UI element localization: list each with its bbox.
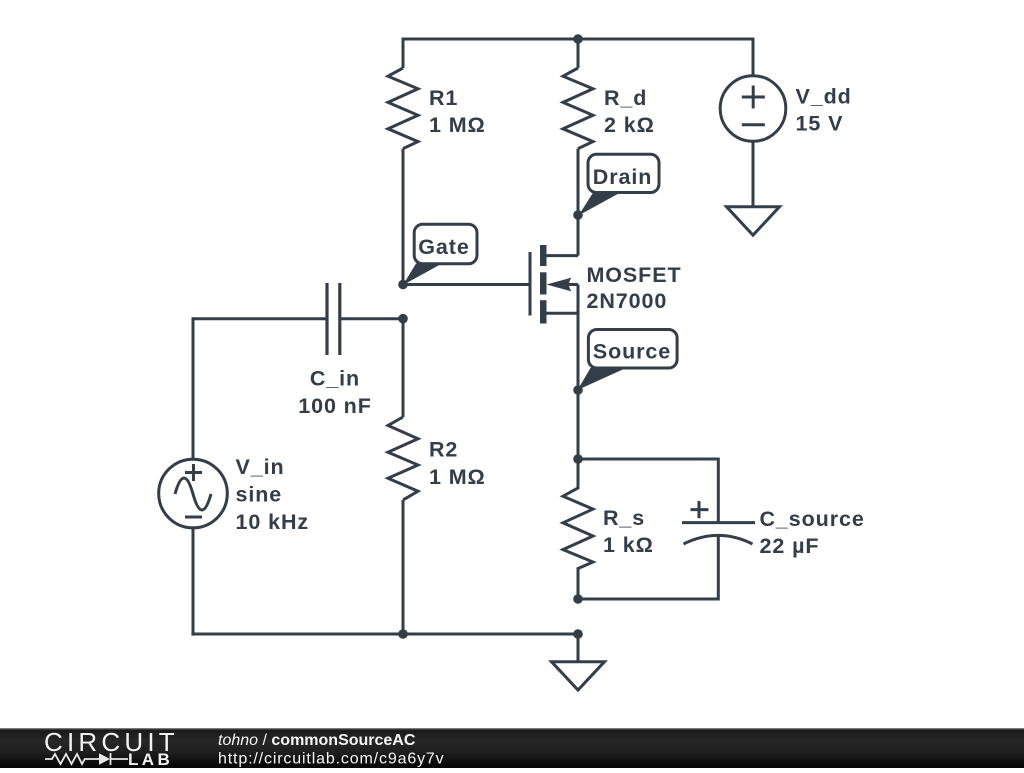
svg-text:C_source: C_source (760, 507, 865, 531)
node: drain junction dot (573, 210, 583, 220)
wire: V_in bottom lead (192, 529, 195, 636)
callout bubble Gate (403, 224, 477, 285)
svg-text:Source: Source (593, 339, 671, 363)
wire: C_in right to gate node (340, 317, 403, 320)
resistor R2 (388, 417, 418, 500)
node: gate junction dot (398, 280, 408, 290)
label C_in value (298, 367, 372, 419)
svg-text:1 MΩ: 1 MΩ (429, 465, 486, 489)
callout bubble Source (578, 330, 678, 391)
label R1 value (429, 86, 486, 137)
svg-text:R1: R1 (429, 86, 458, 110)
wire: C_in left (193, 317, 327, 320)
node: ground rail junction dot (573, 629, 583, 639)
footer bar (0, 728, 1024, 768)
svg-text:LAB: LAB (128, 750, 173, 768)
svg-text:2N7000: 2N7000 (587, 289, 668, 313)
svg-text:http://circuitlab.com/c9a6y7v: http://circuitlab.com/c9a6y7v (218, 751, 445, 768)
svg-text:Gate: Gate (418, 235, 469, 259)
node: R_s bottom junction dot (573, 594, 583, 604)
label R_s value (603, 506, 654, 557)
svg-text:2 kΩ: 2 kΩ (604, 113, 655, 137)
wire: C_source bottom branch (578, 536, 718, 599)
svg-text:tohno / commonSourceAC: tohno / commonSourceAC (218, 732, 416, 749)
svg-text:V_dd: V_dd (796, 85, 852, 109)
voltage source V_dd (720, 76, 786, 142)
svg-text:sine: sine (236, 483, 283, 507)
resistor R_d (563, 68, 593, 149)
svg-text:1 kΩ: 1 kΩ (603, 533, 654, 557)
wire: R_d top lead (577, 39, 580, 68)
wire: bottom rail (191, 633, 578, 636)
svg-text:1 MΩ: 1 MΩ (429, 113, 486, 137)
svg-text:C_in: C_in (310, 367, 360, 391)
wire: V_in top lead (192, 317, 195, 459)
voltage source V_in (sine) (159, 459, 228, 528)
label R_d value (604, 86, 655, 137)
wire: R1 bottom lead to gate node (402, 149, 405, 285)
node: source junction dot (573, 385, 583, 395)
wire: gate node down to R2 (402, 318, 405, 417)
node: R_s top junction dot (573, 454, 583, 464)
svg-text:R_s: R_s (603, 506, 645, 530)
svg-text:10 kHz: 10 kHz (236, 510, 310, 534)
svg-text:V_in: V_in (236, 455, 285, 479)
capacitor C_source (polarized) (682, 501, 755, 544)
wire: R_d bottom lead to drain (577, 149, 580, 256)
ground (below V_dd) (727, 207, 780, 236)
resistor R_s (563, 459, 593, 599)
svg-text:15 V: 15 V (796, 112, 844, 136)
MOSFET U1 2N7000 (530, 245, 578, 324)
svg-text:22 µF: 22 µF (760, 534, 820, 558)
label V_in value (236, 455, 310, 534)
capacitor C_in (327, 283, 340, 355)
wire: ground stem (577, 634, 580, 662)
callout bubble Drain (579, 154, 660, 215)
svg-text:R2: R2 (429, 438, 458, 462)
wire: top supply rail (403, 38, 753, 41)
wire: C_source top branch (578, 459, 718, 523)
ground (bottom) (552, 662, 605, 690)
svg-text:MOSFET: MOSFET (587, 263, 682, 287)
label MOSFET 2N7000 (587, 263, 682, 313)
label C_source value (760, 507, 865, 558)
node: C_in junction dot (398, 314, 408, 324)
node: top rail junction dot (573, 34, 583, 44)
label V_dd value (796, 85, 852, 136)
wire: source lead down (577, 313, 580, 459)
CircuitLab logo: resistor-diode line (45, 753, 128, 765)
svg-text:100 nF: 100 nF (298, 394, 372, 418)
label R2 value (429, 438, 486, 490)
node: R2 bottom rail junction dot (398, 629, 408, 639)
resistor R1 (388, 68, 418, 149)
wire: R1 top lead (402, 38, 405, 69)
svg-text:Drain: Drain (593, 165, 652, 189)
wire: V_dd to ground (752, 142, 755, 207)
svg-text:R_d: R_d (604, 86, 647, 110)
wire: R2 bottom lead (402, 500, 405, 634)
wire: gate wire (403, 283, 530, 286)
wire: V_dd top lead (752, 38, 755, 76)
